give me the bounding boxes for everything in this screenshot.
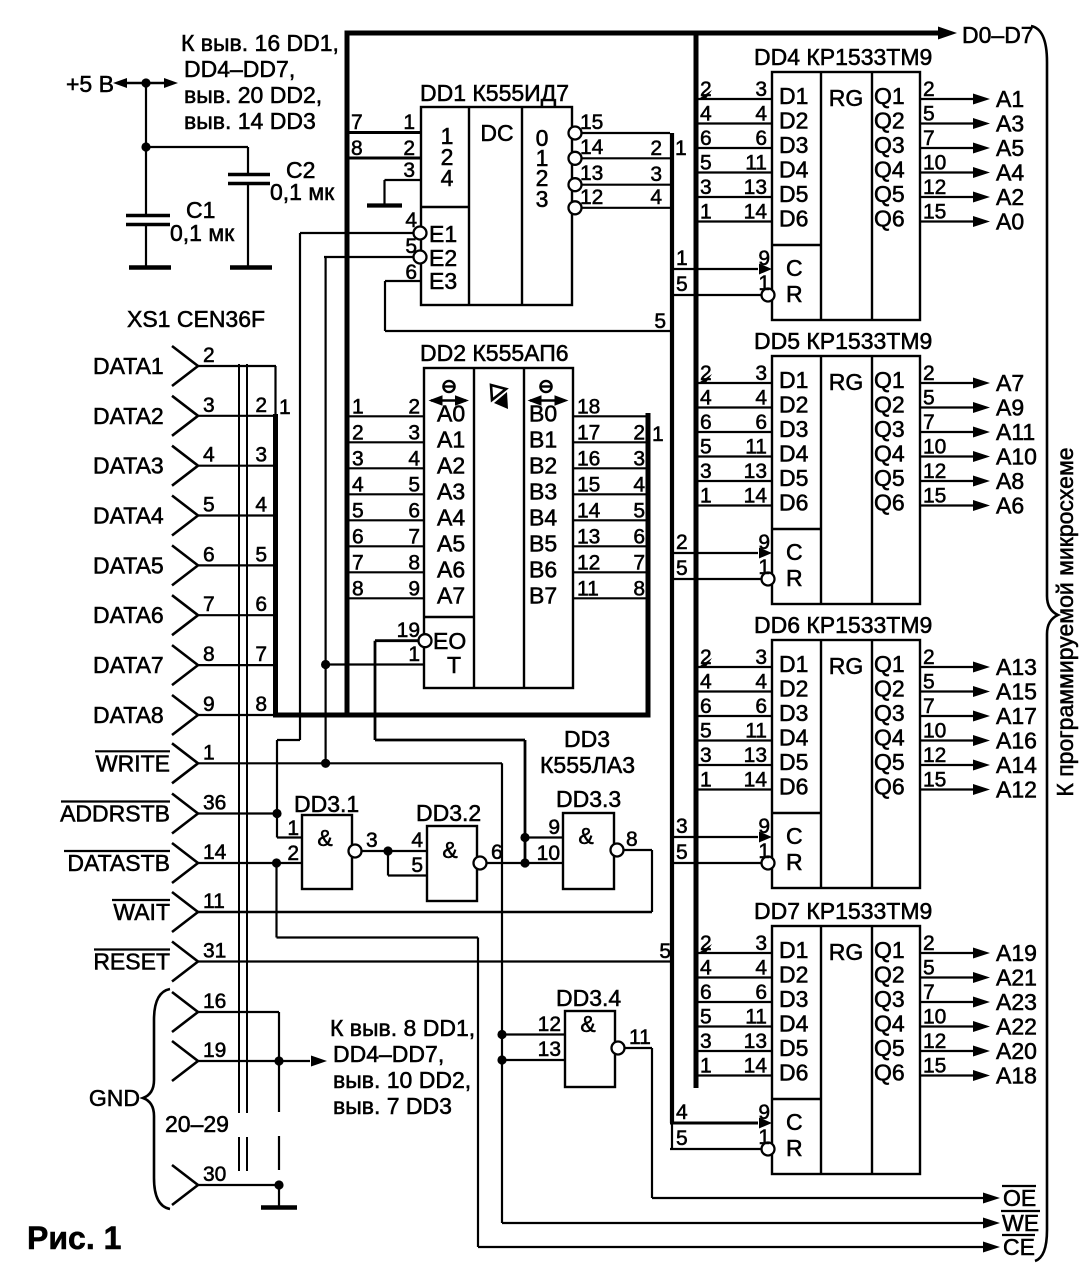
svg-text:4: 4 bbox=[255, 494, 267, 517]
svg-text:9: 9 bbox=[408, 577, 420, 600]
svg-text:5: 5 bbox=[352, 499, 364, 522]
svg-text:2: 2 bbox=[700, 646, 712, 669]
svg-text:1: 1 bbox=[676, 247, 688, 270]
svg-text:15: 15 bbox=[923, 485, 946, 508]
svg-text:D6: D6 bbox=[779, 774, 808, 800]
svg-text:9: 9 bbox=[758, 1101, 770, 1124]
svg-text:3: 3 bbox=[408, 421, 420, 444]
svg-text:К программируемой микросхеме: К программируемой микросхеме bbox=[1052, 447, 1078, 796]
svg-text:2: 2 bbox=[700, 932, 712, 955]
svg-text:A7: A7 bbox=[437, 582, 465, 608]
svg-text:4: 4 bbox=[700, 387, 712, 410]
svg-text:12: 12 bbox=[577, 551, 600, 574]
svg-text:3: 3 bbox=[700, 744, 712, 767]
svg-text:2: 2 bbox=[287, 842, 299, 865]
svg-text:D2: D2 bbox=[779, 962, 808, 988]
svg-text:13: 13 bbox=[744, 744, 767, 767]
svg-text:D1: D1 bbox=[779, 651, 808, 677]
svg-text:7: 7 bbox=[203, 593, 215, 616]
svg-text:D1: D1 bbox=[779, 367, 808, 393]
svg-text:14: 14 bbox=[744, 485, 768, 508]
svg-text:13: 13 bbox=[744, 1030, 767, 1053]
svg-text:OE: OE bbox=[1003, 1185, 1036, 1211]
svg-text:&: & bbox=[578, 823, 593, 849]
svg-text:7: 7 bbox=[923, 695, 935, 718]
svg-text:14: 14 bbox=[744, 769, 768, 792]
svg-text:B4: B4 bbox=[529, 504, 557, 530]
svg-text:D4: D4 bbox=[779, 1011, 809, 1037]
svg-text:2: 2 bbox=[255, 394, 267, 417]
svg-text:5: 5 bbox=[923, 671, 935, 694]
svg-text:CE: CE bbox=[1003, 1234, 1035, 1260]
svg-text:RESET: RESET bbox=[93, 949, 170, 975]
svg-text:Q1: Q1 bbox=[874, 83, 905, 109]
svg-text:11: 11 bbox=[745, 1006, 767, 1029]
svg-text:8: 8 bbox=[408, 551, 420, 574]
svg-text:13: 13 bbox=[744, 176, 767, 199]
svg-text:12: 12 bbox=[923, 176, 946, 199]
svg-text:5: 5 bbox=[633, 499, 645, 522]
svg-text:3: 3 bbox=[536, 186, 549, 212]
svg-text:7: 7 bbox=[633, 551, 645, 574]
svg-text:DD4–DD7,: DD4–DD7, bbox=[184, 56, 295, 82]
svg-text:WAIT: WAIT bbox=[113, 899, 170, 925]
svg-text:3: 3 bbox=[203, 394, 215, 417]
svg-text:4: 4 bbox=[755, 957, 767, 980]
svg-text:D0–D7: D0–D7 bbox=[962, 22, 1034, 48]
svg-text:6: 6 bbox=[755, 127, 767, 150]
svg-text:5: 5 bbox=[676, 557, 688, 580]
svg-text:6: 6 bbox=[633, 525, 645, 548]
svg-text:2: 2 bbox=[700, 362, 712, 385]
svg-text:A21: A21 bbox=[996, 965, 1037, 991]
svg-text:выв. 20 DD2,: выв. 20 DD2, bbox=[184, 82, 322, 108]
svg-text:5: 5 bbox=[923, 103, 935, 126]
svg-text:B3: B3 bbox=[529, 478, 557, 504]
svg-text:1: 1 bbox=[352, 395, 364, 418]
svg-text:2: 2 bbox=[923, 362, 935, 385]
svg-text:10: 10 bbox=[923, 436, 946, 459]
svg-text:1: 1 bbox=[758, 840, 770, 863]
svg-text:1: 1 bbox=[758, 1126, 770, 1149]
svg-text:4: 4 bbox=[408, 447, 420, 470]
svg-text:6: 6 bbox=[700, 411, 712, 434]
svg-text:A20: A20 bbox=[996, 1038, 1037, 1064]
svg-text:6: 6 bbox=[700, 127, 712, 150]
svg-text:A6: A6 bbox=[437, 556, 465, 582]
svg-text:&: & bbox=[317, 825, 332, 851]
svg-text:6: 6 bbox=[700, 981, 712, 1004]
svg-text:A17: A17 bbox=[996, 703, 1037, 729]
svg-text:4: 4 bbox=[700, 671, 712, 694]
svg-text:14: 14 bbox=[580, 136, 604, 159]
svg-text:20–29: 20–29 bbox=[165, 1111, 229, 1137]
svg-text:5: 5 bbox=[408, 473, 420, 496]
svg-text:WRITE: WRITE bbox=[96, 750, 170, 776]
svg-text:D2: D2 bbox=[779, 392, 808, 418]
svg-text:E1: E1 bbox=[429, 221, 457, 247]
svg-text:R: R bbox=[786, 281, 803, 307]
svg-text:8: 8 bbox=[351, 137, 363, 160]
svg-text:12: 12 bbox=[538, 1013, 561, 1036]
svg-text:B5: B5 bbox=[529, 530, 557, 556]
svg-text:3: 3 bbox=[700, 176, 712, 199]
svg-text:выв. 14 DD3: выв. 14 DD3 bbox=[184, 108, 316, 134]
svg-text:10: 10 bbox=[537, 842, 560, 865]
svg-text:A22: A22 bbox=[996, 1014, 1037, 1040]
svg-text:C: C bbox=[786, 1109, 803, 1135]
svg-text:2: 2 bbox=[408, 395, 420, 418]
svg-text:13: 13 bbox=[580, 162, 603, 185]
svg-text:DD3.4: DD3.4 bbox=[556, 985, 621, 1011]
svg-text:5: 5 bbox=[255, 543, 267, 566]
svg-text:4: 4 bbox=[441, 165, 454, 191]
svg-text:RG: RG bbox=[829, 85, 864, 111]
svg-text:К выв. 16 DD1,: К выв. 16 DD1, bbox=[181, 30, 339, 56]
svg-text:D4: D4 bbox=[779, 441, 809, 467]
svg-text:3: 3 bbox=[403, 159, 415, 182]
svg-text:Q3: Q3 bbox=[874, 132, 905, 158]
svg-text:11: 11 bbox=[745, 720, 767, 743]
svg-text:A0: A0 bbox=[996, 209, 1024, 235]
svg-text:D6: D6 bbox=[779, 490, 808, 516]
svg-text:выв. 10 DD2,: выв. 10 DD2, bbox=[333, 1067, 471, 1093]
svg-text:&: & bbox=[580, 1011, 595, 1037]
svg-text:R: R bbox=[786, 565, 803, 591]
svg-text:2: 2 bbox=[633, 421, 645, 444]
svg-text:7: 7 bbox=[923, 127, 935, 150]
svg-text:A5: A5 bbox=[437, 530, 465, 556]
svg-text:1: 1 bbox=[203, 741, 215, 764]
svg-text:A8: A8 bbox=[996, 468, 1024, 494]
svg-text:13: 13 bbox=[538, 1038, 561, 1061]
svg-text:3: 3 bbox=[633, 447, 645, 470]
svg-text:R: R bbox=[786, 849, 803, 875]
svg-text:DATA8: DATA8 bbox=[93, 702, 164, 728]
svg-text:Q6: Q6 bbox=[874, 206, 905, 232]
svg-text:D2: D2 bbox=[779, 676, 808, 702]
svg-text:13: 13 bbox=[577, 525, 600, 548]
svg-text:D6: D6 bbox=[779, 1060, 808, 1086]
svg-text:DD6 КР1533ТМ9: DD6 КР1533ТМ9 bbox=[754, 612, 932, 638]
svg-text:7: 7 bbox=[352, 551, 364, 574]
svg-text:D5: D5 bbox=[779, 1035, 808, 1061]
svg-text:1: 1 bbox=[279, 396, 291, 419]
svg-text:2: 2 bbox=[700, 78, 712, 101]
svg-text:D1: D1 bbox=[779, 83, 808, 109]
svg-text:2: 2 bbox=[352, 421, 364, 444]
svg-text:9: 9 bbox=[758, 815, 770, 838]
svg-text:5: 5 bbox=[203, 494, 215, 517]
svg-text:D3: D3 bbox=[779, 986, 808, 1012]
svg-text:2: 2 bbox=[923, 78, 935, 101]
svg-text:4: 4 bbox=[755, 671, 767, 694]
svg-text:DD1 К555ИД7: DD1 К555ИД7 bbox=[420, 80, 569, 106]
svg-text:2: 2 bbox=[923, 932, 935, 955]
svg-text:5: 5 bbox=[700, 1006, 712, 1029]
svg-text:5: 5 bbox=[923, 957, 935, 980]
svg-text:DATA6: DATA6 bbox=[93, 602, 164, 628]
svg-text:C: C bbox=[786, 823, 803, 849]
svg-text:1: 1 bbox=[758, 556, 770, 579]
svg-text:D5: D5 bbox=[779, 749, 808, 775]
svg-text:3: 3 bbox=[650, 163, 662, 186]
svg-text:6: 6 bbox=[255, 593, 267, 616]
svg-text:3: 3 bbox=[755, 932, 767, 955]
svg-text:12: 12 bbox=[923, 1030, 946, 1053]
svg-text:14: 14 bbox=[203, 841, 227, 864]
svg-text:A0: A0 bbox=[437, 400, 465, 426]
svg-text:9: 9 bbox=[548, 816, 560, 839]
svg-text:2: 2 bbox=[923, 646, 935, 669]
svg-text:12: 12 bbox=[923, 460, 946, 483]
svg-text:DD4 КР1533ТМ9: DD4 КР1533ТМ9 bbox=[754, 44, 932, 70]
svg-text:5: 5 bbox=[700, 436, 712, 459]
svg-text:14: 14 bbox=[577, 499, 601, 522]
svg-text:A19: A19 bbox=[996, 940, 1037, 966]
svg-text:DC: DC bbox=[480, 120, 513, 146]
svg-text:4: 4 bbox=[203, 444, 215, 467]
svg-text:1: 1 bbox=[652, 423, 664, 446]
svg-text:E3: E3 bbox=[429, 268, 457, 294]
svg-text:DD3.1: DD3.1 bbox=[294, 791, 359, 817]
svg-text:7: 7 bbox=[408, 525, 420, 548]
svg-text:9: 9 bbox=[758, 247, 770, 270]
svg-text:10: 10 bbox=[923, 152, 946, 175]
svg-text:11: 11 bbox=[203, 890, 225, 913]
svg-text:DD7 КР1533ТМ9: DD7 КР1533ТМ9 bbox=[754, 898, 932, 924]
svg-text:4: 4 bbox=[700, 103, 712, 126]
svg-text:Q2: Q2 bbox=[874, 392, 905, 418]
svg-text:7: 7 bbox=[255, 643, 267, 666]
svg-text:XS1 CEN36F: XS1 CEN36F bbox=[127, 306, 265, 332]
svg-text:+5 В: +5 В bbox=[66, 71, 114, 97]
svg-text:A10: A10 bbox=[996, 444, 1037, 470]
svg-text:9: 9 bbox=[758, 531, 770, 554]
svg-text:7: 7 bbox=[351, 111, 363, 134]
svg-text:3: 3 bbox=[255, 444, 267, 467]
svg-text:3: 3 bbox=[352, 447, 364, 470]
svg-text:A4: A4 bbox=[996, 160, 1024, 186]
svg-text:3: 3 bbox=[755, 646, 767, 669]
svg-text:10: 10 bbox=[923, 720, 946, 743]
svg-text:D1: D1 bbox=[779, 937, 808, 963]
svg-text:D3: D3 bbox=[779, 132, 808, 158]
svg-text:4: 4 bbox=[676, 1101, 688, 1124]
svg-text:Q4: Q4 bbox=[874, 441, 905, 467]
svg-text:1: 1 bbox=[700, 1055, 712, 1078]
svg-text:Q5: Q5 bbox=[874, 749, 905, 775]
svg-text:2: 2 bbox=[203, 344, 215, 367]
svg-text:Q5: Q5 bbox=[874, 181, 905, 207]
svg-text:6: 6 bbox=[352, 525, 364, 548]
svg-text:D2: D2 bbox=[779, 108, 808, 134]
svg-text:2: 2 bbox=[403, 137, 415, 160]
svg-text:B2: B2 bbox=[529, 452, 557, 478]
svg-text:DATA5: DATA5 bbox=[93, 552, 164, 578]
svg-text:A15: A15 bbox=[996, 679, 1037, 705]
svg-text:Q1: Q1 bbox=[874, 937, 905, 963]
svg-text:A7: A7 bbox=[996, 370, 1024, 396]
svg-text:D5: D5 bbox=[779, 465, 808, 491]
svg-text:DD5 КР1533ТМ9: DD5 КР1533ТМ9 bbox=[754, 328, 932, 354]
svg-text:A3: A3 bbox=[437, 478, 465, 504]
svg-text:Q4: Q4 bbox=[874, 1011, 905, 1037]
svg-text:DD4–DD7,: DD4–DD7, bbox=[333, 1041, 444, 1067]
svg-text:A9: A9 bbox=[996, 395, 1024, 421]
svg-text:5: 5 bbox=[411, 854, 423, 877]
svg-text:A14: A14 bbox=[996, 752, 1037, 778]
svg-text:Q6: Q6 bbox=[874, 490, 905, 516]
svg-text:RG: RG bbox=[829, 369, 864, 395]
svg-text:Q6: Q6 bbox=[874, 1060, 905, 1086]
svg-text:12: 12 bbox=[923, 744, 946, 767]
svg-text:5: 5 bbox=[700, 152, 712, 175]
svg-text:A23: A23 bbox=[996, 989, 1037, 1015]
svg-text:1: 1 bbox=[700, 201, 712, 224]
svg-text:13: 13 bbox=[744, 460, 767, 483]
svg-text:6: 6 bbox=[755, 411, 767, 434]
svg-text:8: 8 bbox=[633, 577, 645, 600]
svg-text:5: 5 bbox=[700, 720, 712, 743]
svg-text:Q4: Q4 bbox=[874, 725, 905, 751]
svg-text:Q4: Q4 bbox=[874, 157, 905, 183]
svg-text:11: 11 bbox=[745, 436, 767, 459]
svg-text:2: 2 bbox=[676, 531, 688, 554]
svg-text:Q3: Q3 bbox=[874, 986, 905, 1012]
svg-text:5: 5 bbox=[654, 310, 666, 333]
svg-text:Q2: Q2 bbox=[874, 962, 905, 988]
svg-text:GND: GND bbox=[89, 1085, 140, 1111]
svg-text:19: 19 bbox=[203, 1039, 226, 1062]
svg-text:D3: D3 bbox=[779, 700, 808, 726]
svg-text:6: 6 bbox=[203, 543, 215, 566]
svg-text:A2: A2 bbox=[437, 452, 465, 478]
svg-text:DATA3: DATA3 bbox=[93, 453, 164, 479]
svg-text:11: 11 bbox=[577, 577, 599, 600]
svg-text:C: C bbox=[786, 255, 803, 281]
svg-text:A16: A16 bbox=[996, 728, 1037, 754]
svg-text:B0: B0 bbox=[529, 400, 557, 426]
svg-text:A5: A5 bbox=[996, 135, 1024, 161]
svg-text:К555ЛА3: К555ЛА3 bbox=[540, 752, 635, 778]
svg-text:30: 30 bbox=[203, 1163, 226, 1186]
svg-text:DATA7: DATA7 bbox=[93, 652, 164, 678]
svg-text:A1: A1 bbox=[437, 426, 465, 452]
svg-text:15: 15 bbox=[923, 769, 946, 792]
svg-text:6: 6 bbox=[700, 695, 712, 718]
svg-text:6: 6 bbox=[755, 981, 767, 1004]
svg-text:A1: A1 bbox=[996, 86, 1024, 112]
svg-text:A3: A3 bbox=[996, 111, 1024, 137]
svg-text:1: 1 bbox=[758, 272, 770, 295]
svg-text:B1: B1 bbox=[529, 426, 557, 452]
svg-text:3: 3 bbox=[700, 1030, 712, 1053]
svg-text:2: 2 bbox=[650, 137, 662, 160]
svg-text:4: 4 bbox=[650, 186, 662, 209]
svg-text:A2: A2 bbox=[996, 184, 1024, 210]
svg-text:1: 1 bbox=[700, 769, 712, 792]
svg-text:3: 3 bbox=[755, 362, 767, 385]
svg-text:Q2: Q2 bbox=[874, 108, 905, 134]
svg-text:5: 5 bbox=[676, 1127, 688, 1150]
svg-text:1: 1 bbox=[408, 643, 420, 666]
svg-text:3: 3 bbox=[676, 815, 688, 838]
svg-text:Q1: Q1 bbox=[874, 367, 905, 393]
svg-text:6: 6 bbox=[491, 841, 503, 864]
svg-text:31: 31 bbox=[203, 940, 226, 963]
svg-text:D5: D5 bbox=[779, 181, 808, 207]
svg-text:1: 1 bbox=[675, 137, 687, 160]
svg-text:7: 7 bbox=[923, 981, 935, 1004]
svg-text:Q3: Q3 bbox=[874, 700, 905, 726]
svg-text:7: 7 bbox=[923, 411, 935, 434]
svg-text:4: 4 bbox=[352, 473, 364, 496]
svg-text:B6: B6 bbox=[529, 556, 557, 582]
svg-text:15: 15 bbox=[580, 111, 603, 134]
svg-text:4: 4 bbox=[700, 957, 712, 980]
svg-text:10: 10 bbox=[923, 1006, 946, 1029]
svg-text:17: 17 bbox=[577, 421, 600, 444]
svg-text:A18: A18 bbox=[996, 1063, 1037, 1089]
svg-text:4: 4 bbox=[633, 473, 645, 496]
svg-text:Q5: Q5 bbox=[874, 465, 905, 491]
svg-text:8: 8 bbox=[626, 828, 638, 851]
svg-text:6: 6 bbox=[755, 695, 767, 718]
svg-text:5: 5 bbox=[676, 841, 688, 864]
svg-text:15: 15 bbox=[577, 473, 600, 496]
svg-text:DATA2: DATA2 bbox=[93, 403, 164, 429]
svg-text:11: 11 bbox=[629, 1026, 651, 1049]
svg-text:Q1: Q1 bbox=[874, 651, 905, 677]
svg-text:RG: RG bbox=[829, 653, 864, 679]
svg-text:5: 5 bbox=[676, 273, 688, 296]
svg-text:8: 8 bbox=[203, 643, 215, 666]
svg-text:8: 8 bbox=[352, 577, 364, 600]
svg-text:Рис. 1: Рис. 1 bbox=[27, 1220, 121, 1256]
svg-text:19: 19 bbox=[397, 619, 420, 642]
svg-text:D3: D3 bbox=[779, 416, 808, 442]
svg-text:DATA1: DATA1 bbox=[93, 353, 164, 379]
svg-text:DD3: DD3 bbox=[564, 726, 610, 752]
svg-text:Q2: Q2 bbox=[874, 676, 905, 702]
svg-text:A13: A13 bbox=[996, 654, 1037, 680]
svg-text:18: 18 bbox=[577, 395, 600, 418]
svg-text:A6: A6 bbox=[996, 493, 1024, 519]
svg-text:4: 4 bbox=[755, 387, 767, 410]
svg-text:15: 15 bbox=[923, 1055, 946, 1078]
svg-text:D4: D4 bbox=[779, 157, 809, 183]
svg-text:&: & bbox=[442, 837, 457, 863]
svg-text:DATASTB: DATASTB bbox=[67, 850, 170, 876]
svg-text:6: 6 bbox=[408, 499, 420, 522]
svg-text:К выв. 8 DD1,: К выв. 8 DD1, bbox=[330, 1015, 475, 1041]
svg-text:DD3.2: DD3.2 bbox=[416, 800, 481, 826]
svg-text:12: 12 bbox=[580, 186, 603, 209]
svg-text:14: 14 bbox=[744, 201, 768, 224]
svg-text:1: 1 bbox=[700, 485, 712, 508]
svg-text:T: T bbox=[447, 652, 461, 678]
svg-text:Q6: Q6 bbox=[874, 774, 905, 800]
svg-text:16: 16 bbox=[203, 990, 226, 1013]
svg-text:8: 8 bbox=[255, 693, 267, 716]
svg-text:A11: A11 bbox=[996, 419, 1035, 445]
svg-text:36: 36 bbox=[203, 792, 226, 815]
svg-text:5: 5 bbox=[923, 387, 935, 410]
svg-text:A12: A12 bbox=[996, 777, 1037, 803]
svg-text:4: 4 bbox=[405, 209, 417, 232]
svg-text:11: 11 bbox=[745, 152, 767, 175]
